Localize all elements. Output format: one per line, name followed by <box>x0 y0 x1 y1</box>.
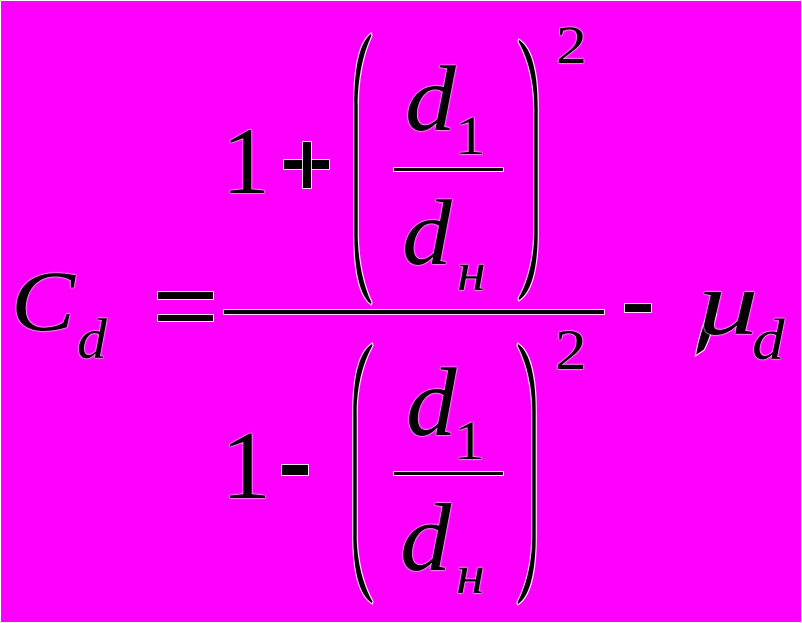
inner numerator d (den) <box>406 355 457 452</box>
minus sign before mu <box>625 304 651 312</box>
subscript 1 (den) <box>454 414 484 469</box>
numerator digit 1 <box>222 114 270 210</box>
exponent 2 (num) <box>556 18 587 72</box>
plus sign vertical stroke <box>303 142 311 188</box>
variable C <box>11 258 75 344</box>
subscript н (num) <box>457 245 486 300</box>
inner denominator d (den) <box>400 490 451 586</box>
left parenthesis (numerator) <box>354 34 371 304</box>
inner fraction bar (numerator) <box>394 168 503 170</box>
plus sign horizontal stroke <box>284 160 328 169</box>
denominator digit 1 <box>221 418 271 515</box>
inner numerator d <box>405 53 456 146</box>
descender tail of greek mu <box>696 312 716 355</box>
left parenthesis (denominator) <box>353 344 372 603</box>
subscript d of C <box>77 311 107 369</box>
right parenthesis (denominator) <box>518 344 536 604</box>
exponent 2 (den) <box>555 322 587 379</box>
subscript н (den) <box>456 548 485 603</box>
inner denominator d <box>402 187 452 280</box>
minus sign (denominator) <box>282 465 308 475</box>
equals sign top bar <box>158 292 213 299</box>
equals sign bottom bar <box>158 315 213 322</box>
main fraction bar <box>224 310 604 314</box>
right parenthesis (numerator) <box>519 40 538 300</box>
subscript 1 (num) <box>455 109 486 164</box>
subscript d of mu <box>752 311 785 369</box>
mu body (italic u shape) <box>698 258 759 349</box>
inner fraction bar (denominator) <box>394 472 503 475</box>
